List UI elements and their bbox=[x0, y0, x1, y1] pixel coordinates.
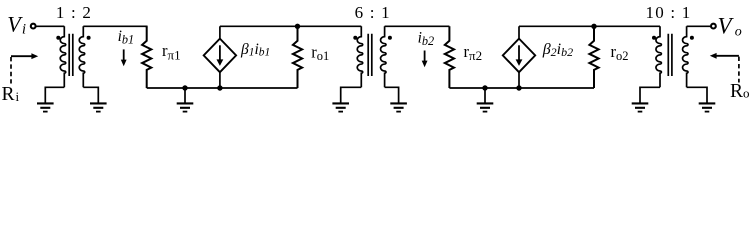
transformer X1 1:2 right winding bbox=[79, 26, 84, 87]
transformer X2 6:1 polarity dot right bbox=[388, 36, 392, 40]
resistor rpi2 bbox=[445, 26, 454, 88]
svg-text:rπ2: rπ2 bbox=[464, 42, 483, 63]
label Ro bbox=[730, 81, 750, 102]
node stage2 ground tap bbox=[482, 85, 487, 103]
wire B1 bottom lead bbox=[219, 72, 221, 88]
label Ri bbox=[2, 84, 20, 105]
node ro1 top junction bbox=[295, 24, 300, 29]
ground stage2 bbox=[477, 103, 494, 111]
label Vi bbox=[7, 11, 26, 37]
stage2 bottom rail bbox=[449, 87, 594, 89]
label rpi1 bbox=[162, 41, 181, 62]
svg-text:Ro: Ro bbox=[730, 81, 750, 102]
transformer X1 1:2 polarity dot right bbox=[87, 36, 91, 40]
Ri annotation arrow bbox=[11, 53, 38, 83]
node B2 bottom junction bbox=[516, 85, 521, 90]
ground at X1 1:2 secondary bbox=[90, 103, 107, 111]
wire X3 10:1 right bottom to ground bbox=[687, 87, 707, 103]
svg-text:Vi: Vi bbox=[7, 11, 26, 37]
ground at X3 10:1 secondary bbox=[699, 103, 716, 111]
ground at X3 10:1 primary bbox=[632, 103, 649, 111]
label beta2 ib2 bbox=[542, 41, 573, 59]
svg-text:ro1: ro1 bbox=[311, 42, 329, 63]
input terminal bbox=[31, 24, 36, 29]
label ib1 bbox=[118, 28, 135, 47]
transformer X3 10:1 polarity dot right bbox=[690, 36, 694, 40]
svg-text:10 : 1: 10 : 1 bbox=[646, 3, 692, 22]
wire X3 to Vo bbox=[687, 25, 711, 27]
ground stage1 bbox=[177, 103, 194, 111]
wire B2 bottom lead bbox=[518, 72, 520, 88]
node stage1 ground tap bbox=[182, 85, 187, 103]
svg-text:ro2: ro2 bbox=[611, 42, 629, 63]
wire X1 1:2 left bottom to ground bbox=[45, 87, 64, 103]
current source B1 diamond bbox=[204, 39, 236, 73]
resistor ro2 bbox=[589, 26, 598, 88]
svg-text:1 : 2: 1 : 2 bbox=[56, 3, 92, 22]
wire X3 10:1 left bottom to ground bbox=[640, 87, 660, 103]
label ratio 10:1 bbox=[646, 3, 692, 22]
svg-text:β2ib2: β2ib2 bbox=[542, 41, 573, 59]
wire X2 6:1 left bottom to ground bbox=[341, 87, 362, 103]
ground at X1 1:2 primary bbox=[37, 103, 54, 111]
wire B1 top lead bbox=[219, 26, 221, 38]
label Vo bbox=[718, 13, 742, 39]
wire B2 top lead bbox=[518, 26, 520, 38]
wire Vi to X1 bbox=[36, 25, 65, 27]
wire X1 to rpi1 bbox=[83, 26, 146, 28]
ground at X2 6:1 secondary bbox=[390, 103, 407, 111]
arrow ib2 bbox=[422, 51, 428, 68]
wire B2 to ro2 to X3 bbox=[519, 25, 660, 27]
ground at X2 6:1 primary bbox=[332, 103, 349, 111]
wire X1 1:2 right bottom to ground bbox=[83, 87, 98, 103]
svg-text:ib1: ib1 bbox=[118, 28, 135, 47]
label ratio 6:1 bbox=[355, 3, 391, 22]
resistor rpi1 bbox=[142, 26, 151, 88]
svg-text:rπ1: rπ1 bbox=[162, 41, 181, 62]
label rpi2 bbox=[464, 42, 483, 63]
transformer X1 1:2 polarity dot left bbox=[56, 36, 60, 40]
Ro annotation arrow bbox=[710, 53, 739, 83]
transformer X3 10:1 polarity dot left bbox=[652, 36, 656, 40]
label ro1 bbox=[311, 42, 329, 63]
wire X2 to rpi2 bbox=[385, 25, 450, 27]
transformer X2 6:1 polarity dot left bbox=[353, 36, 357, 40]
current source B2 diamond bbox=[503, 39, 535, 73]
svg-text:Ri: Ri bbox=[2, 84, 20, 105]
transformer X3 10:1 left winding bbox=[656, 26, 661, 87]
svg-text:ib2: ib2 bbox=[418, 29, 435, 48]
label ro2 bbox=[611, 42, 629, 63]
transformer X1 1:2 left winding bbox=[60, 26, 65, 87]
transformer X1 1:2 core bbox=[69, 34, 73, 76]
transformer X2 6:1 right winding bbox=[381, 26, 386, 87]
stage1 bottom rail bbox=[147, 87, 298, 89]
transformer X2 6:1 left winding bbox=[357, 26, 362, 87]
arrow ib1 bbox=[121, 49, 127, 66]
node B1 bottom junction bbox=[217, 85, 222, 90]
transformer X3 10:1 right winding bbox=[683, 26, 688, 87]
svg-text:Vo: Vo bbox=[718, 13, 742, 39]
output terminal bbox=[711, 24, 716, 29]
label ib2 bbox=[418, 29, 435, 48]
node ro2 top junction bbox=[591, 24, 596, 29]
label ratio 1:2 bbox=[56, 3, 92, 22]
wire B1 to ro1 to X2 bbox=[220, 25, 361, 27]
transformer X3 10:1 core bbox=[668, 34, 672, 76]
svg-text:6 : 1: 6 : 1 bbox=[355, 3, 391, 22]
wire X2 6:1 right bottom to ground bbox=[385, 87, 399, 103]
svg-text:β1ib1: β1ib1 bbox=[240, 41, 270, 59]
transformer X2 6:1 core bbox=[368, 34, 372, 76]
resistor ro1 bbox=[293, 26, 302, 88]
label beta1 ib1 bbox=[240, 41, 270, 59]
